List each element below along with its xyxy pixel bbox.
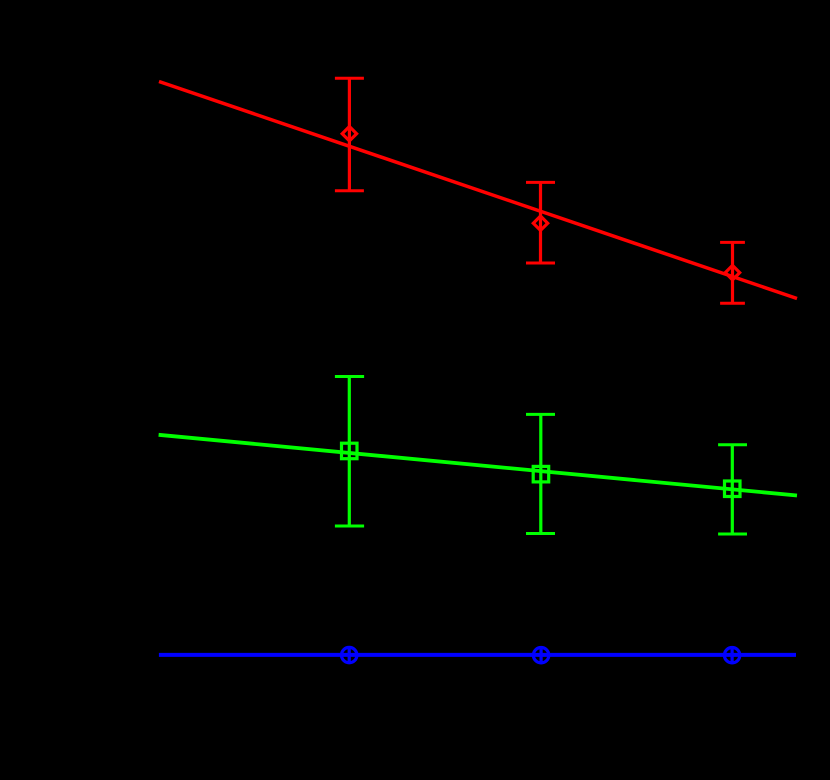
red error bar 1 bottom cap xyxy=(335,189,364,192)
red diamond marker 1 xyxy=(342,127,356,141)
green square marker 1 xyxy=(342,443,358,459)
green error bar 3 stem xyxy=(731,445,734,534)
red error bar 3 top cap xyxy=(720,241,745,244)
green error bar 3 bottom cap xyxy=(718,533,747,536)
red diamond marker 3 xyxy=(725,265,739,279)
blue circle marker 2 xyxy=(533,648,548,663)
green error bar 2 stem xyxy=(539,414,542,533)
red error bar 1 stem xyxy=(348,78,351,190)
red trend line xyxy=(159,82,797,299)
green trend line xyxy=(159,435,797,496)
red diamond marker 2 xyxy=(533,216,547,230)
blue circle marker 3 xyxy=(724,648,739,663)
green square marker 2 xyxy=(533,466,549,482)
green error bar 1 top cap xyxy=(335,375,364,378)
red error bar 1 top cap xyxy=(335,77,364,80)
red error bar 2 top cap xyxy=(526,181,555,184)
green error bar 1 stem xyxy=(348,377,351,527)
blue error bar 1 stem xyxy=(348,648,351,661)
red error bar 2 stem xyxy=(539,182,542,263)
blue error bar 2 stem xyxy=(539,648,542,661)
red error bar 3 stem xyxy=(731,242,734,303)
green error bar 2 top cap xyxy=(526,413,555,416)
red error bar 2 bottom cap xyxy=(526,262,555,265)
green square marker 3 xyxy=(725,481,741,497)
red error bar 3 bottom cap xyxy=(720,302,745,305)
green error bar 1 bottom cap xyxy=(335,525,364,528)
blue circle marker 1 xyxy=(342,647,357,662)
green error bar 3 top cap xyxy=(718,443,747,446)
blue error bar 3 stem xyxy=(730,648,733,661)
blue trend line xyxy=(159,653,796,657)
green error bar 2 bottom cap xyxy=(526,532,555,535)
